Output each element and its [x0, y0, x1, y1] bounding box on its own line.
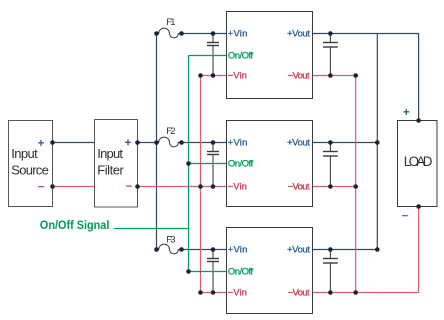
svg-text:On/Off: On/Off: [228, 51, 254, 62]
svg-text:F1: F1: [166, 17, 175, 28]
svg-text:+: +: [125, 138, 132, 150]
svg-text:On/Off: On/Off: [228, 159, 254, 170]
svg-text:−Vout: −Vout: [288, 71, 310, 82]
svg-text:On/Off: On/Off: [228, 267, 254, 278]
svg-text:Input: Input: [97, 146, 123, 161]
svg-text:−Vout: −Vout: [288, 182, 310, 193]
svg-text:−Vin: −Vin: [228, 182, 247, 193]
svg-text:Filter: Filter: [97, 162, 124, 177]
svg-text:−Vin: −Vin: [228, 71, 247, 82]
svg-text:+Vin: +Vin: [228, 138, 248, 149]
svg-text:+Vin: +Vin: [228, 245, 248, 256]
svg-text:+: +: [38, 138, 45, 150]
svg-text:−Vout: −Vout: [288, 288, 310, 299]
svg-text:F2: F2: [166, 126, 175, 137]
svg-text:−Vin: −Vin: [228, 288, 247, 299]
svg-text:Input: Input: [11, 146, 38, 161]
svg-text:+Vout: +Vout: [287, 245, 310, 256]
svg-text:+Vout: +Vout: [287, 138, 310, 149]
svg-text:−: −: [402, 211, 409, 223]
svg-text:+Vin: +Vin: [228, 29, 248, 40]
svg-text:F3: F3: [166, 234, 175, 245]
svg-text:Source: Source: [11, 162, 49, 177]
svg-text:−: −: [126, 181, 133, 193]
svg-text:+: +: [403, 107, 410, 119]
svg-text:−: −: [38, 182, 45, 194]
svg-text:On/Off Signal: On/Off Signal: [40, 220, 110, 232]
svg-text:+Vout: +Vout: [287, 29, 310, 40]
svg-text:LOAD: LOAD: [404, 154, 433, 169]
